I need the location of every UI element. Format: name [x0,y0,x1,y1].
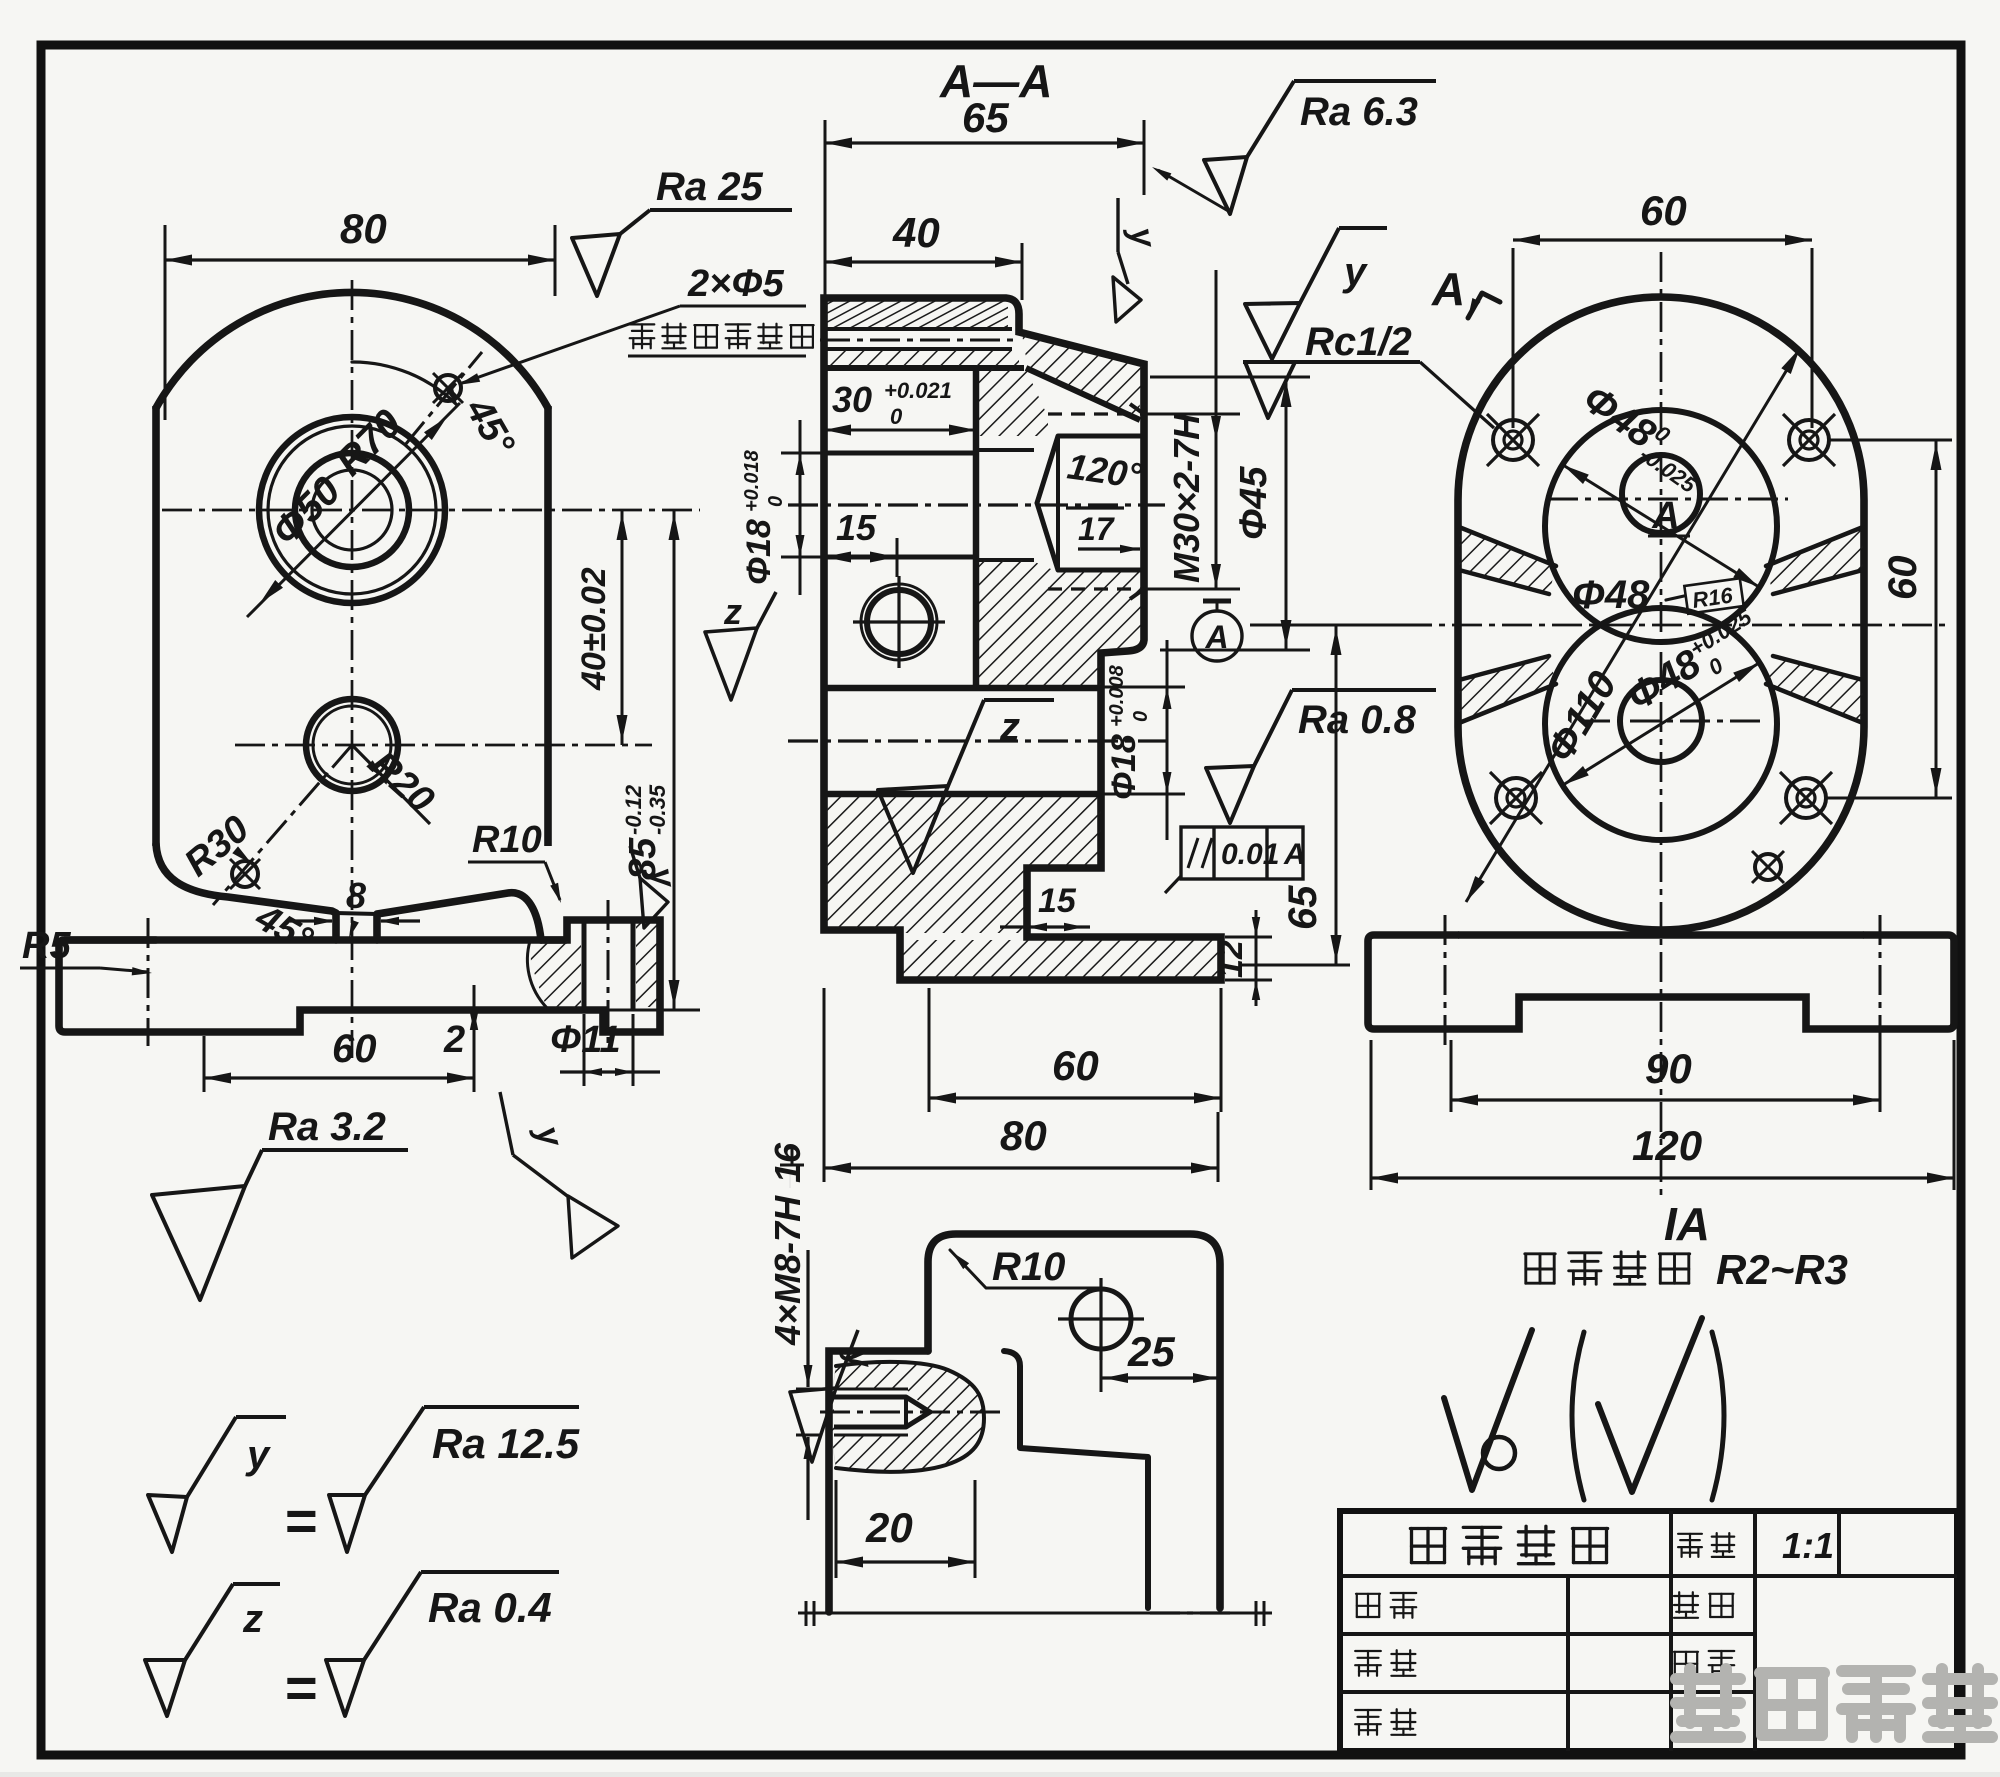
svg-text:1:1: 1:1 [1782,1525,1834,1566]
bore channel step lines [976,448,1034,452]
svg-text:+0.018: +0.018 [741,449,763,512]
svg-text:20: 20 [865,1504,913,1551]
svg-text:-0.35: -0.35 [645,784,670,835]
svg-text:0: 0 [890,404,903,429]
svg-text:A: A [1283,838,1306,871]
y-surf symbol at lug [790,1388,836,1462]
y-surf symbol below base (Phi11) [500,1092,513,1155]
dim 20 [835,1480,838,1578]
svg-text:15: 15 [1038,882,1077,920]
svg-text:60: 60 [332,1027,377,1071]
parallelism tolerance frame [1181,827,1303,879]
left view sides [152,406,160,846]
M8 hole at 1806,798 [1786,778,1826,818]
svg-text:Φ18: Φ18 [1105,734,1143,800]
lower boss circle R20 [306,699,398,791]
centerlines mid view [788,503,1165,506]
svg-text:60: 60 [1640,187,1687,234]
svg-text:0: 0 [765,496,787,507]
ground/break line [798,1612,1272,1615]
Ra 0.8 symbol [1206,766,1254,823]
hole with cross in lug [1071,1289,1131,1349]
svg-text:z: z [999,705,1020,749]
M8 tapped hole local section [832,1362,985,1472]
svg-text:Ra 6.3: Ra 6.3 [1300,90,1418,134]
svg-text:R10: R10 [992,1245,1065,1289]
label R10 lug [950,1250,986,1288]
2xPhi5 hole lower left [232,861,258,887]
svg-text:16: 16 [767,1142,808,1183]
svg-text:4×M8-7H: 4×M8-7H [767,1195,808,1346]
small pin hole lower right [1755,854,1781,880]
dim 65 right [1250,624,1432,627]
dim 40+-0.02 [621,510,624,745]
port wedges hatched [1459,527,1556,594]
svg-text:80: 80 [340,205,387,252]
svg-text:R10: R10 [472,819,542,861]
M8 hole at 1809,440 [1789,420,1829,460]
base hole centerlines right view [1444,915,1447,1045]
gear chamber circles [1545,410,1777,642]
base plate left view [59,920,660,1032]
small y-surf symbol on 85 line [640,878,668,928]
watermark [1676,1669,1740,1737]
svg-text:120: 120 [1632,1122,1702,1169]
M30 threaded hole [1048,412,1144,415]
svg-text:8: 8 [346,875,366,916]
hatch: taper band [1022,334,1142,418]
lower bore bottom line [824,791,1103,798]
lug interior step lines [1004,1351,1148,1608]
svg-text:R5: R5 [22,925,71,967]
svg-text:IA: IA [1664,1198,1710,1250]
note Chinese: with oil pump cover match-make [630,324,655,348]
svg-text:2×Φ5: 2×Φ5 [687,263,785,305]
svg-text:30: 30 [832,379,872,420]
hatch base local section [530,941,581,1008]
svg-text:60: 60 [1881,556,1925,601]
svg-text:25: 25 [1127,1328,1175,1375]
svg-text:Ra 0.8: Ra 0.8 [1298,698,1417,742]
side hole circle in chamber [861,584,937,660]
svg-text:0.01: 0.01 [1221,838,1279,871]
upper bore Phi18 lines [824,451,976,456]
svg-text:Ra 3.2: Ra 3.2 [268,1105,386,1149]
svg-text:12: 12 [1212,940,1250,978]
Ra 6.3 symbol with leader [1204,157,1247,214]
datum A flag [1203,599,1231,604]
dim 25 [1100,1330,1103,1392]
dim 120 [1370,1040,1373,1190]
svg-text:40: 40 [892,209,940,256]
svg-text:z: z [723,591,742,632]
equivalence y = Ra 12.5 [148,1495,187,1552]
Ra 25 symbol [572,234,620,296]
cap bottom edge [824,365,1024,371]
svg-text:Ra 0.4: Ra 0.4 [428,1584,552,1631]
small R16 box [1684,578,1743,614]
right view base [1368,935,1954,1029]
svg-text:z: z [242,1597,263,1641]
hatch: bottom block [826,797,1101,933]
dim 85 -0.12 -0.35 [673,510,676,1010]
label R20 [352,745,430,824]
Phi11 hole in base section [582,920,587,1010]
equivalence z = Ra 0.4 [145,1660,185,1716]
svg-text:Rc1/2: Rc1/2 [1305,320,1412,364]
hatch: cap strips [826,301,1008,327]
chamber wall and bottom [973,365,980,688]
dim Phi48 lower [1563,663,1759,785]
svg-text:0: 0 [1130,711,1152,722]
right view stadium outline [1458,297,1864,930]
label 4xM8-7H depth 16 rotated [767,1142,808,1346]
lower shaft hole [1620,680,1702,762]
left view outer arch [156,292,548,408]
dim 90 [1450,1040,1453,1112]
dim 40 mid view top [1021,243,1024,300]
dim Phi18 +0.008 right [1103,686,1185,689]
lug outline [928,1234,1220,1608]
Ra 3.2 symbol [152,1186,245,1300]
dim Phi110 [1466,348,1800,902]
left view concentric circles (Phi50 bore etc.) [312,470,392,550]
svg-text:y: y [245,1433,271,1477]
svg-text:+0.021: +0.021 [884,378,952,403]
lower taper line [1026,368,1140,420]
upper shaft hole [1622,455,1700,533]
dim 60 base [203,1036,206,1092]
2xPhi5 hole upper right [435,375,461,401]
svg-text:80: 80 [1000,1112,1047,1159]
svg-text:-0.12: -0.12 [621,784,646,835]
diagonal dimension line through C1 [247,403,460,617]
dim Phi45 [1150,376,1310,379]
svg-text:2: 2 [443,1019,465,1061]
svg-text:y: y [1342,250,1368,294]
svg-text:R2~R3: R2~R3 [1716,1246,1848,1293]
hatch: bottom flange strip [903,940,1218,977]
z-surf symbol left [705,628,757,700]
z-surf symbol inner [878,786,948,873]
svg-text:=: = [285,1489,318,1552]
left view bottom profile with neck slot [156,844,336,940]
hatch: mid block [979,560,1141,685]
base hole centerlines [147,918,150,1046]
row labels [1356,1594,1380,1617]
svg-text:Φ18: Φ18 [740,519,778,585]
svg-text:Ra 12.5: Ra 12.5 [432,1420,580,1467]
svg-text:65: 65 [1281,885,1325,930]
dim 80 top [164,225,167,420]
svg-text:+0.008: +0.008 [1106,664,1128,727]
title text [1410,1529,1445,1563]
y-surf symbol S3 [1245,303,1300,359]
dim 60 top right view [1512,248,1515,428]
summary surface symbols [1444,1330,1532,1490]
note: unmarked fillets R2-R3 [1525,1254,1555,1283]
svg-text:40±0.02: 40±0.02 [575,567,613,691]
45deg arc + label upper [352,362,457,405]
title block [1340,1511,1957,1751]
svg-text:15: 15 [836,507,877,548]
y-surf rotated on 65 ext line [1116,198,1119,252]
svg-text:65: 65 [962,94,1009,141]
svg-text:=: = [285,1656,318,1719]
cap pin hole strips [824,327,1012,331]
svg-text:M30×2-7H: M30×2-7H [1166,413,1207,583]
dim Phi18 +0.018 left [799,420,802,595]
dim 60 right side [1830,439,1952,442]
hatch: between chamber and M30 top [979,368,1048,436]
svg-text:60: 60 [1052,1042,1099,1089]
dim 12 flange [1225,936,1272,939]
svg-text:A: A [1651,495,1679,537]
svg-text:Φ48: Φ48 [1572,573,1650,617]
vertical dim arrows for thread depth [806,1250,809,1387]
dim 60 bottom [928,988,931,1112]
middle view outline [824,298,1221,980]
svg-text:Φ45: Φ45 [1233,466,1275,540]
svg-text:Ra 25: Ra 25 [656,165,763,209]
Rc1/2 symbol [1243,360,1420,364]
svg-text:90: 90 [1645,1045,1692,1092]
svg-text:17: 17 [1078,511,1116,547]
left view centerlines [351,280,354,1058]
svg-text:A: A [1431,263,1465,315]
right view centerlines [1660,252,1663,1198]
dim 80 bottom [823,988,826,1182]
M8 hole at 1516,798 [1496,778,1536,818]
M8 hole at 1513,440 [1493,420,1533,460]
dim Phi48 upper [1563,465,1759,587]
dim 65 top [824,120,827,300]
